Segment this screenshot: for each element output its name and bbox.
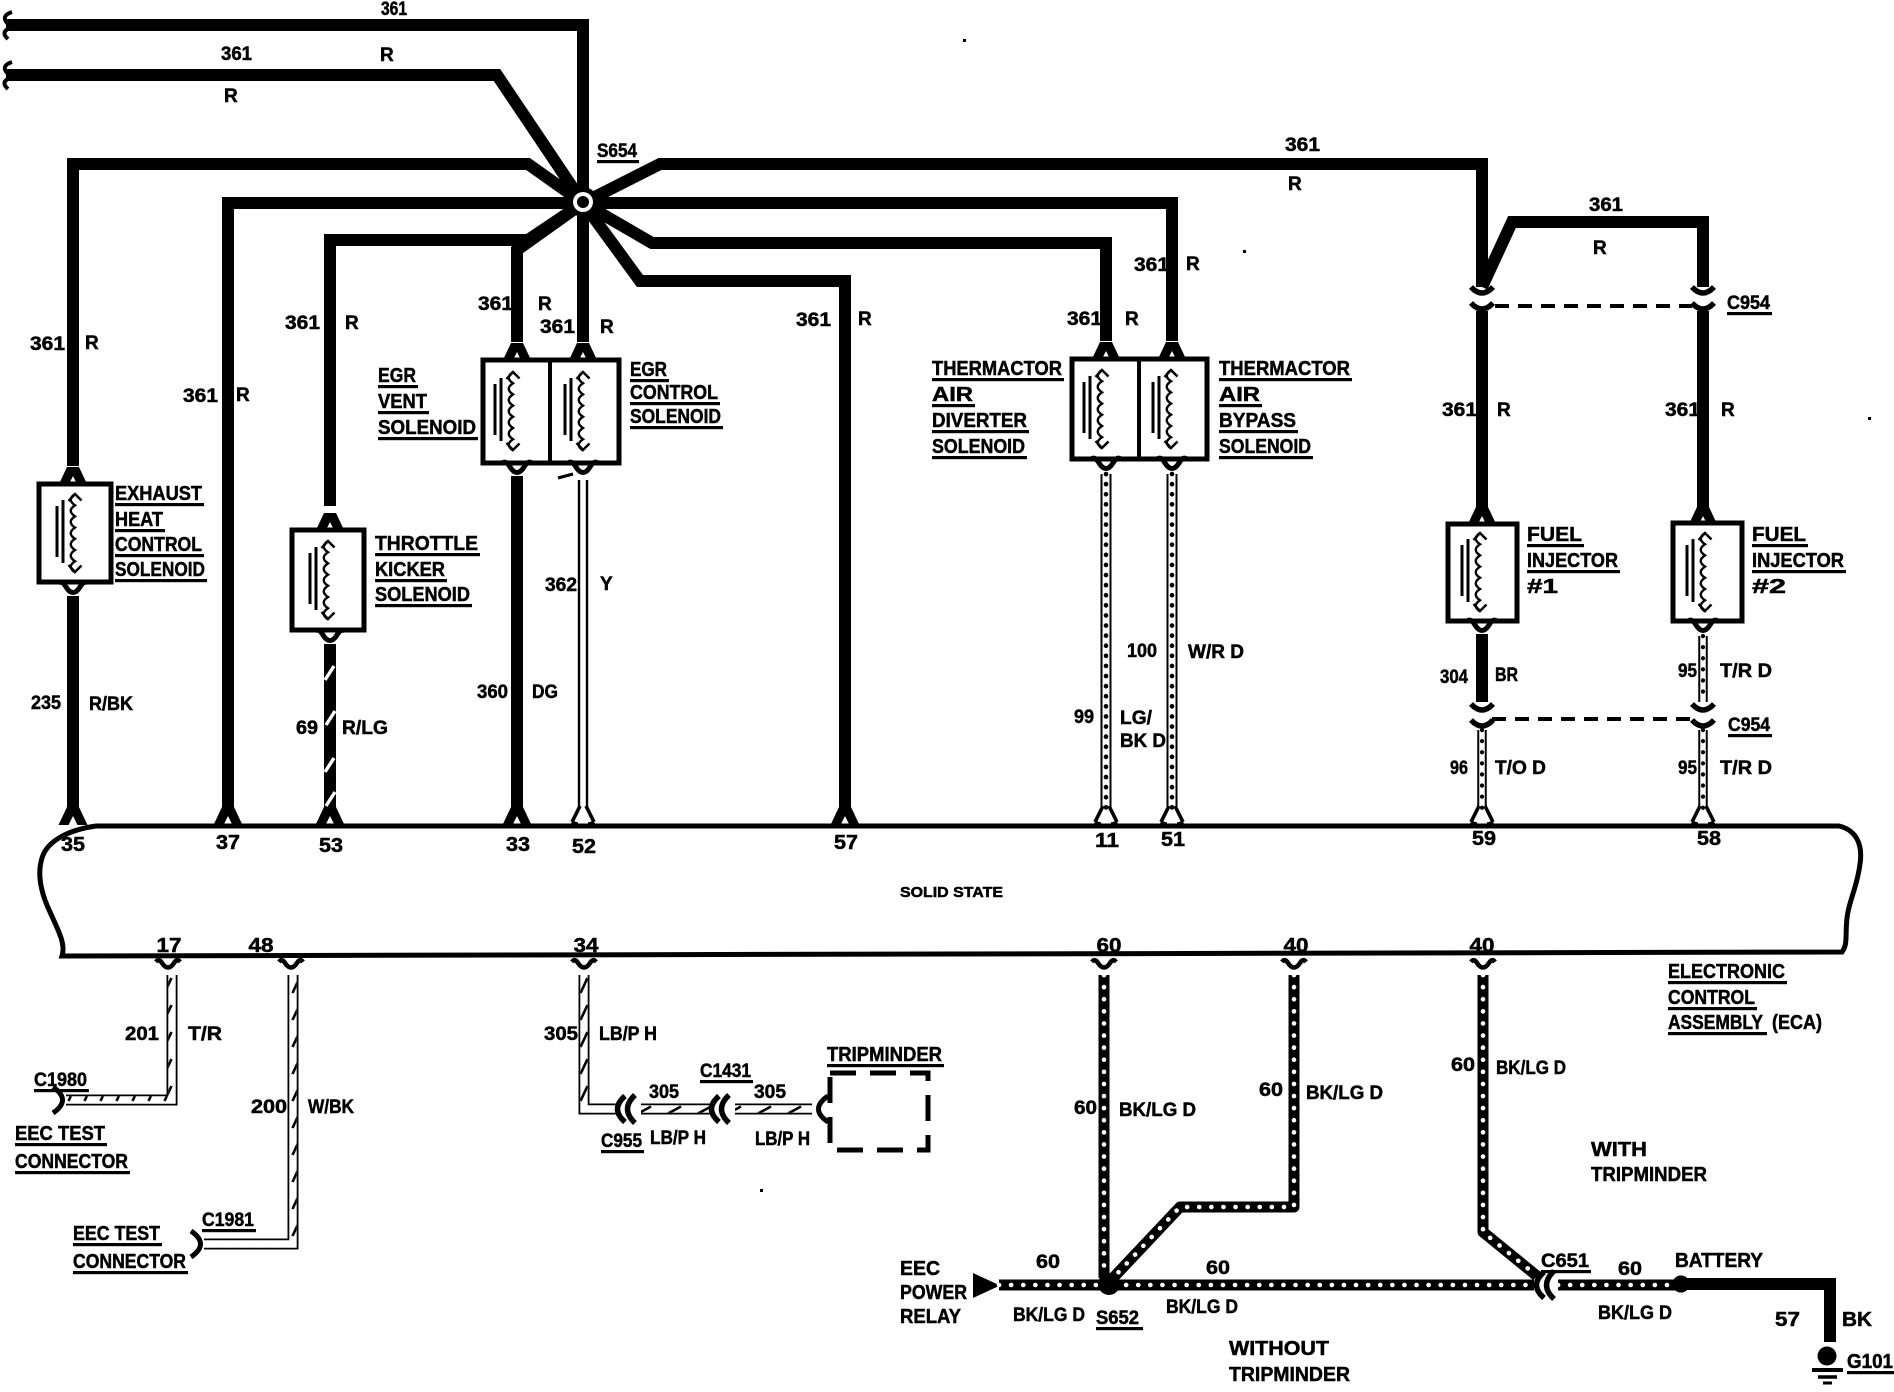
connector cup below thermactor bypass [1157, 458, 1187, 468]
svg-text:361: 361 [1134, 255, 1169, 276]
svg-text:CONTROL: CONTROL [1668, 987, 1755, 1009]
connector foot ECA pin 57 [831, 807, 860, 825]
connector foot into thermactor air diverter solenoid [1092, 342, 1121, 360]
svg-text:SOLENOID: SOLENOID [1219, 435, 1311, 458]
dashed tie line between C954 halves [1495, 304, 1692, 308]
svg-text:R: R [1186, 254, 1200, 275]
svg-text:AIR: AIR [1219, 383, 1260, 406]
connector foot into throttle kicker solenoid [316, 513, 345, 531]
svg-text:95: 95 [1678, 758, 1697, 779]
svg-text:Y: Y [600, 574, 613, 595]
polarity tick on wire 362 [558, 474, 573, 478]
connector foot ECA pin 53 [316, 807, 345, 825]
svg-text:R/LG: R/LG [342, 718, 388, 739]
wire 361 R from S654 to thermactor air diverter solenoid [583, 203, 1106, 341]
svg-text:361: 361 [540, 317, 575, 338]
connector foot ECA pin 35 [59, 807, 88, 825]
svg-text:304: 304 [1440, 667, 1468, 688]
svg-text:EEC: EEC [900, 1258, 940, 1280]
wire 305 LB/P H (ECA pin 34 to C955, hatched) [584, 975, 620, 1109]
connector cup below exhaust heat control solenoid [58, 582, 88, 592]
svg-text:TRIPMINDER: TRIPMINDER [1229, 1364, 1351, 1386]
svg-text:60: 60 [1206, 1258, 1230, 1279]
svg-text:DG: DG [532, 682, 558, 703]
wire 361 R branch to fuel injector 2 (via C954) [1482, 222, 1703, 287]
battery node [1673, 1276, 1690, 1293]
wire 305 LB/P H (C1431 to tripminder, hatched) [735, 1104, 812, 1115]
connector C954 lower on injector 1 wire [1471, 704, 1493, 726]
wire 361 R from S654 to throttle kicker solenoid [330, 203, 583, 506]
svg-text:BATTERY: BATTERY [1675, 1250, 1764, 1272]
connector C1431 [712, 1095, 730, 1123]
ECA electronic control assembly outline [40, 826, 1861, 956]
svg-text:VENT: VENT [378, 390, 427, 413]
wire 96 T/O D (C954 to ECA pin 59, dotted) [1477, 730, 1487, 808]
connector cup ECA pin 60 (bottom) [1092, 960, 1116, 967]
wire 361 R from S654 to ECA pin 37 [228, 203, 583, 810]
svg-text:C1981: C1981 [202, 1210, 254, 1231]
svg-text:BK/LG D: BK/LG D [1598, 1303, 1672, 1324]
wire 60 BK/LG D (S652 to C651, dotted) [1114, 1280, 1534, 1291]
svg-text:#1: #1 [1527, 575, 1558, 598]
svg-text:60: 60 [1451, 1055, 1475, 1076]
wire 304 BR (injector 1 to C954) [1476, 634, 1488, 702]
EEC power relay arrow [973, 1273, 1000, 1298]
splice S652 [1099, 1274, 1120, 1295]
tripminder end curl [819, 1096, 829, 1122]
svg-text:40: 40 [1470, 935, 1495, 957]
wire 361 R from S654 to thermactor air bypass solenoid [583, 203, 1172, 341]
wire 361 R from S654 to fuel injector feed (to C954) [583, 164, 1482, 287]
svg-text:TRIPMINDER: TRIPMINDER [1591, 1164, 1708, 1186]
svg-text:EXHAUST: EXHAUST [115, 482, 202, 505]
svg-text:THERMACTOR: THERMACTOR [1219, 357, 1350, 380]
battery node overdraw [1673, 1276, 1690, 1293]
svg-text:T/R: T/R [188, 1024, 222, 1045]
wire 200 W/BK (ECA pin 48 to C1981, hatched) [204, 975, 293, 1244]
wire 361 R from S654 to exhaust heat control solenoid [73, 164, 583, 466]
wire 69 R/LG to ECA pin 53 (striped) [324, 644, 336, 810]
connector foot ECA pin 37 [214, 807, 243, 825]
connector foot ECA pin 52 [572, 806, 594, 824]
svg-text:52: 52 [572, 836, 596, 858]
svg-text:ASSEMBLY: ASSEMBLY [1668, 1012, 1764, 1034]
connector foot into exhaust heat control solenoid [59, 467, 88, 485]
svg-text:361: 361 [796, 310, 831, 331]
svg-text:60: 60 [1618, 1259, 1642, 1280]
svg-text:DIVERTER: DIVERTER [932, 409, 1027, 432]
svg-text:40: 40 [1284, 935, 1309, 957]
svg-text:ELECTRONIC: ELECTRONIC [1668, 961, 1785, 983]
svg-text:WITH: WITH [1591, 1139, 1647, 1161]
throttle kicker solenoid box [292, 530, 364, 630]
splice S652 dot overdraw [1098, 1273, 1120, 1295]
connector cup ECA pin 40 (bottom) [1282, 960, 1306, 967]
connector foot ECA pin 33 [503, 807, 532, 825]
connector C651 [1537, 1271, 1555, 1299]
svg-text:60: 60 [1097, 935, 1122, 957]
svg-text:CONTROL: CONTROL [115, 533, 202, 556]
connector cup ECA pin 34 (bottom) [572, 960, 596, 967]
svg-text:C954: C954 [1727, 293, 1770, 314]
svg-text:361: 361 [183, 386, 218, 407]
connector cup ECA pin 17 (bottom) [156, 960, 180, 967]
svg-text:99: 99 [1074, 707, 1094, 728]
svg-text:361: 361 [30, 334, 65, 355]
wire 305 LB/P H (C955 to C1431, hatched) [641, 1104, 712, 1115]
svg-text:R/BK: R/BK [89, 694, 133, 715]
svg-text:305: 305 [544, 1024, 578, 1045]
connector foot ECA pin 59 [1471, 806, 1493, 824]
svg-text:INJECTOR: INJECTOR [1752, 549, 1844, 572]
wire 361 R from S654 to EGR vent solenoid [517, 203, 583, 342]
svg-text:RELAY: RELAY [900, 1306, 962, 1328]
connector C1981 end curl [191, 1231, 201, 1257]
svg-text:THERMACTOR: THERMACTOR [932, 357, 1062, 380]
svg-text:T/R D: T/R D [1720, 758, 1772, 779]
wire break curl left end of second 361 feed [4, 62, 12, 89]
connector foot into fuel injector 1 [1468, 507, 1497, 525]
wire 95 T/R D (injector 2 to C954, dotted) [1698, 636, 1708, 702]
svg-text:BK/LG D: BK/LG D [1119, 1100, 1196, 1121]
svg-text:51: 51 [1161, 829, 1185, 851]
svg-text:EGR: EGR [630, 358, 667, 381]
svg-text:R: R [224, 86, 238, 107]
svg-text:G101: G101 [1847, 1351, 1893, 1373]
svg-text:95: 95 [1678, 661, 1697, 682]
connector cup below EGR vent solenoid [502, 462, 532, 472]
wire 362 Y to ECA pin 52 (thin) [578, 480, 580, 808]
svg-text:200: 200 [251, 1097, 287, 1118]
EGR vent / EGR control solenoid double box [483, 360, 619, 463]
svg-text:57: 57 [834, 832, 858, 854]
connector foot ECA pin 51 [1161, 806, 1183, 824]
svg-text:W/R D: W/R D [1188, 642, 1244, 663]
svg-text:37: 37 [216, 832, 240, 854]
svg-text:R: R [1288, 174, 1302, 195]
svg-text:POWER: POWER [900, 1282, 967, 1304]
svg-text:361: 361 [221, 44, 252, 65]
svg-text:33: 33 [506, 834, 530, 856]
svg-text:C955: C955 [601, 1131, 642, 1152]
svg-text:360: 360 [477, 682, 508, 703]
svg-text:BK/LG D: BK/LG D [1013, 1305, 1085, 1326]
wire 60 BK/LG D (ECA pin 40 first to S652, dotted) [1113, 975, 1294, 1278]
connector C954 lower on injector 2 wire [1692, 704, 1714, 726]
svg-text:T/R D: T/R D [1720, 661, 1772, 682]
connector foot ECA pin 11 [1095, 806, 1117, 824]
svg-text:305: 305 [754, 1082, 786, 1103]
fuel injector 1 box [1448, 524, 1517, 621]
svg-text:11: 11 [1095, 830, 1119, 852]
svg-text:SOLENOID: SOLENOID [932, 435, 1025, 458]
wire break curl left end of top 361 feed [4, 12, 12, 39]
splice S654 [568, 187, 598, 217]
svg-text:C954: C954 [1728, 715, 1770, 736]
wire 201 T/R (ECA pin 17 to C1980, hatched) [66, 975, 172, 1100]
wire 60 BK/LG D (relay to S652, dotted) [999, 1280, 1104, 1291]
svg-text:TRIPMINDER: TRIPMINDER [827, 1044, 943, 1066]
svg-text:361: 361 [285, 313, 320, 334]
svg-text:60: 60 [1259, 1080, 1283, 1101]
wire 361 R top feed (left edge to S654, vertical drop, continues to EGR control solenoid) [6, 25, 583, 342]
wire 95 T/R D (C954 to ECA pin 58, dotted) [1698, 730, 1708, 808]
svg-text:KICKER: KICKER [375, 558, 445, 581]
svg-text:C651: C651 [1541, 1251, 1589, 1272]
svg-text:LB/P H: LB/P H [755, 1129, 810, 1150]
connector C954 on injector 2 feed [1692, 287, 1714, 309]
svg-text:EEC TEST: EEC TEST [15, 1123, 105, 1145]
svg-text:361: 361 [1665, 400, 1700, 421]
connector cup below fuel injector 1 [1467, 620, 1497, 630]
wire 361 R from S654 to ECA pin 57 [583, 203, 845, 810]
svg-text:SOLID STATE: SOLID STATE [900, 884, 1003, 901]
svg-text:HEAT: HEAT [115, 508, 163, 531]
svg-text:SOLENOID: SOLENOID [378, 416, 476, 439]
svg-text:R: R [1497, 400, 1511, 421]
svg-text:AIR: AIR [932, 383, 973, 406]
wire 235 R/BK to ECA pin 35 [67, 596, 79, 810]
svg-text:BK D: BK D [1120, 731, 1166, 752]
svg-text:CONNECTOR: CONNECTOR [73, 1251, 186, 1273]
connector cup below thermactor diverter [1091, 458, 1121, 468]
svg-text:SOLENOID: SOLENOID [375, 583, 470, 606]
wire 57 BK (battery to ground G101) [1679, 1284, 1830, 1342]
fuel injector 2 box [1673, 523, 1742, 621]
svg-text:(ECA): (ECA) [1772, 1012, 1822, 1034]
svg-text:LB/P H: LB/P H [650, 1128, 706, 1149]
svg-text:S654: S654 [597, 141, 637, 162]
wire 60 BK/LG D (ECA pin 40 second to C651, dotted) [1483, 975, 1537, 1276]
connector cup below EGR control solenoid [568, 462, 598, 472]
wire 361 R C954 to fuel injector 1 [1476, 311, 1488, 508]
svg-text:R: R [600, 317, 614, 338]
ground G101 [1818, 1347, 1837, 1366]
svg-text:SOLENOID: SOLENOID [630, 405, 721, 428]
connector foot into thermactor air bypass solenoid [1158, 342, 1187, 360]
svg-text:R: R [858, 309, 872, 330]
svg-text:C1980: C1980 [34, 1070, 87, 1091]
connector C954 on injector 1 feed [1471, 287, 1493, 309]
connector C955 [618, 1095, 636, 1123]
svg-text:361: 361 [1067, 309, 1102, 330]
svg-text:SOLENOID: SOLENOID [115, 558, 205, 581]
connector cup ECA pin 48 (bottom) [279, 960, 303, 967]
tripminder dashed box [830, 1073, 928, 1150]
svg-text:53: 53 [319, 835, 343, 857]
connector foot into EGR vent solenoid [503, 343, 532, 361]
svg-text:69: 69 [296, 718, 318, 739]
svg-text:EEC TEST: EEC TEST [73, 1223, 160, 1245]
thermactor air diverter / bypass solenoid double box [1072, 359, 1207, 459]
connector cup below fuel injector 2 [1688, 620, 1718, 630]
dashed tie line between lower C954 halves [1492, 717, 1692, 721]
svg-text:S652: S652 [1096, 1308, 1139, 1329]
exhaust heat control solenoid box [39, 484, 111, 582]
svg-text:R: R [345, 313, 359, 334]
svg-text:361: 361 [1442, 400, 1477, 421]
svg-text:60: 60 [1036, 1252, 1060, 1273]
connector cup ECA pin 40 (bottom) [1471, 960, 1495, 967]
svg-text:CONTROL: CONTROL [630, 381, 718, 404]
wire 60 BK/LG D (ECA pin 60 to S652, dotted) [1099, 975, 1110, 1278]
svg-text:17: 17 [157, 935, 182, 957]
svg-text:R: R [1125, 309, 1139, 330]
svg-text:100: 100 [1127, 641, 1157, 662]
wire 99 LG/BK D to ECA pin 11 (dotted) [1101, 474, 1112, 808]
svg-text:W/BK: W/BK [308, 1097, 354, 1118]
svg-text:CONNECTOR: CONNECTOR [15, 1151, 128, 1173]
svg-text:BK/LG D: BK/LG D [1166, 1297, 1238, 1318]
connector foot into EGR control solenoid [569, 343, 598, 361]
svg-text:BK: BK [1842, 1309, 1873, 1331]
svg-text:361: 361 [1589, 195, 1623, 216]
svg-text:57: 57 [1775, 1309, 1800, 1331]
connector C1980 end curl [53, 1087, 63, 1113]
svg-text:362: 362 [545, 575, 577, 596]
svg-text:361: 361 [478, 294, 513, 315]
connector foot into fuel injector 2 [1689, 507, 1718, 525]
svg-text:R: R [1721, 400, 1735, 421]
svg-text:59: 59 [1472, 828, 1496, 850]
svg-text:34: 34 [574, 935, 600, 957]
svg-text:WITHOUT: WITHOUT [1229, 1338, 1329, 1360]
wire 100 W/R D to ECA pin 51 (dotted) [1167, 474, 1178, 808]
svg-text:48: 48 [249, 935, 274, 957]
svg-text:361: 361 [381, 0, 407, 20]
svg-text:R: R [236, 385, 250, 406]
svg-text:305: 305 [649, 1082, 679, 1103]
svg-text:INJECTOR: INJECTOR [1527, 549, 1618, 572]
svg-text:235: 235 [31, 693, 61, 714]
svg-text:EGR: EGR [378, 364, 416, 387]
wire 360 DG to ECA pin 33 [511, 476, 523, 810]
svg-text:FUEL: FUEL [1527, 523, 1582, 546]
svg-text:R: R [1593, 238, 1607, 259]
svg-text:C1431: C1431 [700, 1061, 751, 1082]
svg-text:LB/P H: LB/P H [599, 1024, 657, 1045]
svg-text:35: 35 [61, 834, 85, 856]
wire 60 BK/LG D (C651 to battery, dotted) [1558, 1280, 1678, 1291]
svg-text:361: 361 [1285, 135, 1320, 156]
svg-text:60: 60 [1074, 1098, 1097, 1119]
svg-text:LG/: LG/ [1120, 708, 1153, 729]
svg-text:BK/LG D: BK/LG D [1306, 1083, 1383, 1104]
wire 361 R C954 to fuel injector 2 [1697, 311, 1709, 508]
svg-text:#2: #2 [1752, 575, 1786, 598]
svg-text:R: R [538, 294, 552, 315]
svg-text:R: R [380, 45, 394, 66]
svg-text:FUEL: FUEL [1752, 523, 1806, 546]
svg-text:BK/LG D: BK/LG D [1496, 1058, 1566, 1079]
noise specks [1243, 250, 1246, 253]
connector foot ECA pin 58 [1692, 806, 1714, 824]
wire 361 R second feed (left edge diagonal into S654) [6, 75, 583, 203]
svg-text:96: 96 [1450, 758, 1468, 779]
svg-text:BR: BR [1495, 665, 1518, 686]
svg-text:R: R [85, 333, 99, 354]
svg-text:58: 58 [1697, 828, 1721, 850]
svg-text:T/O D: T/O D [1495, 758, 1546, 779]
svg-text:THROTTLE: THROTTLE [375, 532, 478, 555]
svg-text:BYPASS: BYPASS [1219, 409, 1296, 432]
connector cup below throttle kicker solenoid [315, 630, 345, 640]
svg-text:201: 201 [125, 1024, 159, 1045]
